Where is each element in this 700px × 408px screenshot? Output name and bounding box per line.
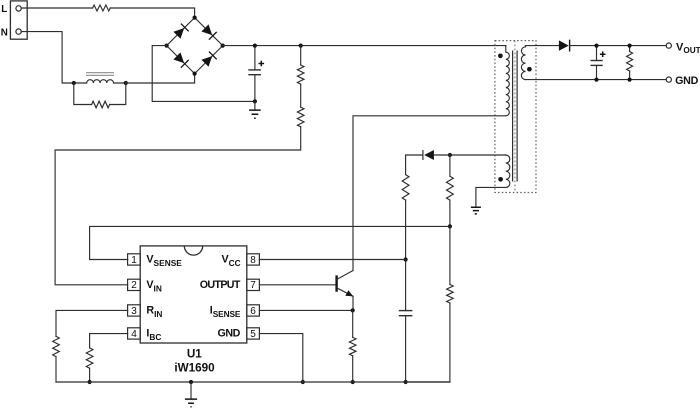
node bridge left xyxy=(165,44,169,48)
diode D6 (VCC rectifier, points left) xyxy=(424,150,434,160)
transformer core line 1 xyxy=(512,51,514,182)
capacitor C3 (VCC) xyxy=(399,310,413,312)
wire secondary bottom to GND terminal xyxy=(526,79,667,81)
svg-text:U1: U1 xyxy=(187,348,202,361)
node C3 bottom / bus xyxy=(404,380,408,384)
pin 6 box xyxy=(247,305,260,316)
connector J1 (AC input) xyxy=(10,1,27,39)
terminal GND out xyxy=(666,77,671,82)
ground (under U1) xyxy=(190,382,192,399)
wire fuse to bridge top xyxy=(110,8,194,18)
node R5 top xyxy=(628,44,632,48)
node bridge bottom xyxy=(193,72,197,76)
resistor R10 (RIN set) xyxy=(53,336,60,356)
svg-text:8: 8 xyxy=(250,255,256,266)
wire emitter to Isense node xyxy=(352,296,354,310)
node C1 bottom xyxy=(253,99,257,103)
pin 2 box xyxy=(128,279,141,290)
svg-text:5: 5 xyxy=(250,329,256,340)
wire pin5 to ground bus xyxy=(259,334,302,382)
auxiliary winding T1 xyxy=(506,155,510,187)
bridge diode D4 (bottom-right) xyxy=(201,52,217,68)
capacitor C1 (bulk) xyxy=(254,46,256,102)
node Vsense tap xyxy=(448,224,452,228)
pin 1 box xyxy=(128,254,141,265)
svg-text:3: 3 xyxy=(131,306,137,317)
svg-text:4: 4 xyxy=(131,329,137,340)
wire Vsense tap to pin1 xyxy=(90,226,450,259)
terminal N pin xyxy=(16,29,21,34)
bridge diode D1 (left-top) xyxy=(173,24,189,40)
node R11 bottom / bus xyxy=(88,380,92,384)
wire diode to VOUT terminal xyxy=(570,45,667,47)
bridge rectifier BR1 frame xyxy=(167,18,223,74)
pin 4 box xyxy=(128,328,141,339)
node C2 bottom xyxy=(594,78,598,82)
diode D5 (output rectifier) xyxy=(559,40,569,50)
resistor R5 (output load) xyxy=(629,46,631,52)
IC U1 body xyxy=(140,246,247,343)
primary winding T1 xyxy=(506,46,510,116)
ground (aux winding) xyxy=(471,207,481,214)
Q1 collector xyxy=(337,271,353,280)
node bridge right xyxy=(221,44,225,48)
transformer core line 2 xyxy=(516,51,518,182)
wire R6 to VCC node xyxy=(405,200,407,311)
pin 5 box xyxy=(247,328,260,339)
wire bridge negative to primary ground xyxy=(152,46,255,102)
polarity dot auxiliary xyxy=(498,177,503,182)
wire L to fuse xyxy=(21,7,92,9)
isolation dashed line xyxy=(514,41,516,193)
node bus / startup divider xyxy=(299,44,303,48)
wire secondary top to output diode xyxy=(526,45,559,47)
svg-text:OUTPUT: OUTPUT xyxy=(200,279,241,291)
wire pin4 to R11 xyxy=(90,334,128,348)
Q1 emitter arrow xyxy=(345,290,353,296)
capacitor C2 (output) xyxy=(596,46,598,80)
wire ground bus xyxy=(56,381,450,383)
node VCC xyxy=(404,257,408,261)
wire startup divider to VIN xyxy=(55,127,301,285)
wire DC bus xyxy=(223,45,506,47)
Q1 emitter xyxy=(337,288,353,297)
svg-text:L: L xyxy=(1,4,7,15)
resistor R11 (IBC set) xyxy=(86,348,93,368)
resistor R2 (choke damping) xyxy=(74,83,92,105)
svg-text:N: N xyxy=(1,28,8,39)
node Isense xyxy=(351,308,355,312)
wire aux bottom to ground xyxy=(476,187,506,206)
U1 notch xyxy=(184,246,202,255)
choke core bar 2 xyxy=(86,74,114,76)
resistor R6 (VCC series) xyxy=(402,175,409,201)
ground (primary, below C1) xyxy=(254,101,256,110)
resistor R7 (Vsense divider upper) xyxy=(449,155,451,176)
wire choke to bridge bottom xyxy=(126,74,195,83)
wire aux winding to diode D6 xyxy=(450,154,506,156)
wire pin3 to R10 xyxy=(56,310,128,336)
node R9 bottom / bus xyxy=(351,380,355,384)
plus sign C2 xyxy=(600,51,606,57)
node choke left xyxy=(72,81,76,85)
node R5 bottom xyxy=(628,78,632,82)
svg-text:1: 1 xyxy=(131,255,137,266)
svg-text:7: 7 xyxy=(250,280,256,291)
pin 3 box xyxy=(128,305,141,316)
bridge diode D3 (left-bottom) xyxy=(173,52,189,68)
wire diode to R6 xyxy=(406,155,423,175)
node choke right xyxy=(124,81,128,85)
wire pin6 to Isense node xyxy=(259,309,352,311)
pin 7 box xyxy=(247,279,260,290)
svg-text:GND: GND xyxy=(218,328,241,340)
node bus / C1 top xyxy=(253,44,257,48)
wire primary bottom to Q1 collector xyxy=(353,116,506,271)
node ground stub xyxy=(189,380,193,384)
wire pin8 to VCC node xyxy=(259,259,405,261)
choke core bar 1 xyxy=(86,72,114,74)
polarity dot secondary xyxy=(527,67,532,72)
svg-text:6: 6 xyxy=(250,306,256,317)
node C2 top xyxy=(594,44,598,48)
svg-text:2: 2 xyxy=(131,280,137,291)
pin 8 box xyxy=(247,254,260,265)
wire pin7 to Q1 base xyxy=(259,284,336,286)
svg-text:iW1690: iW1690 xyxy=(174,362,215,375)
plus sign C1 xyxy=(259,61,265,67)
secondary winding T1 xyxy=(521,46,525,80)
node bridge top xyxy=(193,16,197,20)
resistor R8 (Vsense divider lower) xyxy=(449,226,451,284)
resistor R1 (fusible, L line) xyxy=(93,5,111,11)
inductor L1 (line choke) xyxy=(74,80,126,83)
resistor R3 (startup upper) xyxy=(300,46,302,65)
transformer T1 dashed box xyxy=(495,41,536,193)
transistor Q1 base bar xyxy=(335,275,337,291)
node aux diode junction xyxy=(448,153,452,157)
terminal L pin xyxy=(16,6,21,11)
terminal VOUT xyxy=(666,43,671,48)
resistor R4 (startup lower) xyxy=(300,84,302,107)
wire N to choke xyxy=(21,32,74,83)
bridge diode D2 (top-right) xyxy=(201,24,217,40)
svg-text:GND: GND xyxy=(675,75,698,87)
polarity dot primary xyxy=(498,53,503,58)
resistor R9 (current sense) xyxy=(352,310,354,337)
node pin5 bus xyxy=(301,380,305,384)
